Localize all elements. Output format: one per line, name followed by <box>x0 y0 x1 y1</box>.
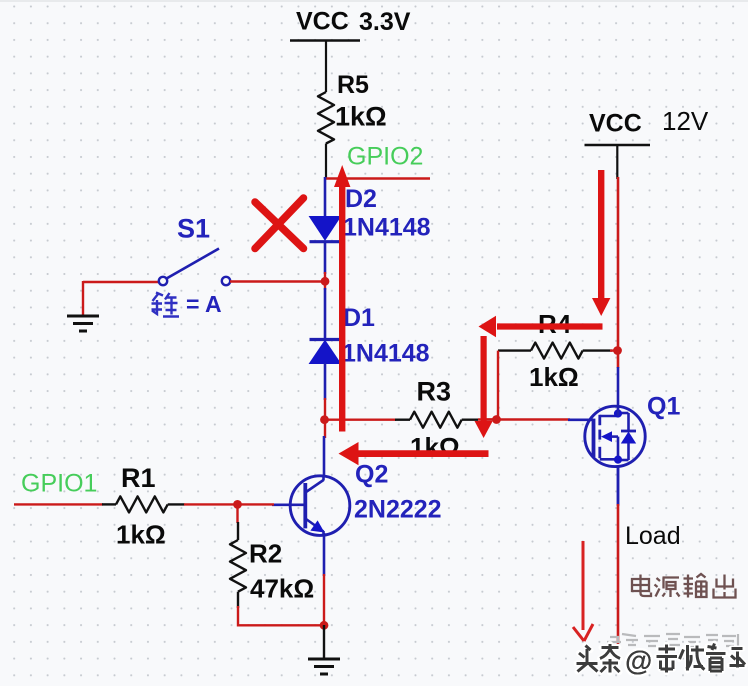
annotation thick red left-arrow (into Q2 collector) <box>339 442 489 465</box>
wire R1 to base (red) <box>184 503 274 505</box>
node junction emitter/R2/ground <box>320 621 329 630</box>
svg-text:1N4148: 1N4148 <box>342 340 430 368</box>
wire R4 left down to gate net (red) <box>486 351 498 420</box>
svg-text:1kΩ: 1kΩ <box>529 362 579 392</box>
svg-text:GPIO2: GPIO2 <box>347 143 423 171</box>
svg-text:2N2222: 2N2222 <box>354 496 442 524</box>
label 电源输出 (dark red-gray) <box>632 574 736 598</box>
svg-text:R2: R2 <box>249 539 282 569</box>
ground (S1 side) <box>67 281 99 331</box>
ground (bottom) <box>308 625 340 674</box>
node GPIO2 label <box>347 143 423 171</box>
resistor R4 1k <box>498 309 618 392</box>
label Load <box>625 522 681 550</box>
wire R2 bottom to emitter node (red) <box>238 606 324 625</box>
svg-text:1kΩ: 1kΩ <box>116 520 166 550</box>
resistor R5 1k <box>318 71 387 178</box>
svg-text:1kΩ: 1kΩ <box>335 102 387 132</box>
wire Q2 emitter down (blue pin then red) <box>323 533 326 626</box>
wire D2-to-node (red) <box>324 272 326 290</box>
svg-text:1kΩ: 1kΩ <box>410 432 460 462</box>
svg-text:D1: D1 <box>343 304 375 332</box>
svg-text:@: @ <box>625 645 652 676</box>
label 键 = A <box>152 291 222 317</box>
wire R3 to Q1 gate (red) <box>478 418 570 420</box>
wire collector node to R3 (red) <box>325 419 396 421</box>
svg-text:3.3V: 3.3V <box>359 8 411 36</box>
svg-text:12V: 12V <box>662 106 709 136</box>
wire GPIO2 net (red) <box>325 177 430 179</box>
power VCC 3.3V symbol <box>290 8 411 93</box>
switch S1 <box>83 214 325 286</box>
svg-text:R1: R1 <box>121 463 156 493</box>
svg-text:Q2: Q2 <box>355 461 388 489</box>
svg-text:GPIO1: GPIO1 <box>21 470 97 498</box>
transistor Q2 2N2222 <box>272 461 442 536</box>
wire VCC12 rail (red) <box>617 177 620 368</box>
wire Q2 collector pin (blue) <box>323 436 326 477</box>
annotation red X over D2 <box>255 198 304 249</box>
MOSFET Q1 <box>568 367 680 505</box>
diode D2 1N4148 <box>310 177 431 274</box>
svg-text:Load: Load <box>625 522 681 550</box>
annotation thick red down-arrow (to gate net) <box>475 336 493 438</box>
watermark 头条@硬件笔记本 <box>577 644 746 677</box>
annotation thick red up-arrow (current into GPIO2) <box>334 165 350 432</box>
resistor R1 1k <box>102 463 185 550</box>
svg-text:VCC: VCC <box>589 110 642 138</box>
diode D1 1N4148 <box>310 288 430 400</box>
svg-text:R5: R5 <box>337 71 369 99</box>
node junction R1/R2/base <box>233 500 242 509</box>
resistor R2 47k <box>230 504 314 608</box>
watermark ghost text <box>607 634 738 648</box>
svg-text:S1: S1 <box>177 214 210 244</box>
annotation thick red left-arrow (over R4) <box>479 316 603 337</box>
svg-text:= A: = A <box>186 291 222 317</box>
svg-text:VCC: VCC <box>296 8 349 36</box>
svg-text:Q1: Q1 <box>647 393 680 421</box>
node junction R3/R4/gate <box>492 415 501 424</box>
svg-text:1N4148: 1N4148 <box>343 214 431 242</box>
node junction S1/diodes <box>321 277 330 286</box>
wire GPIO1 to R1 (red) <box>14 503 103 505</box>
annotation thick red down-arrow (from 12V) <box>592 170 610 316</box>
node junction VCC12/R4/drain <box>613 346 622 355</box>
wire Q1 source to Load (blue pin then red) <box>617 466 620 644</box>
power VCC 12V symbol <box>585 106 709 179</box>
svg-text:R3: R3 <box>417 377 452 407</box>
svg-text:D2: D2 <box>345 185 377 213</box>
annotation thin red arrow (output current) <box>573 541 593 641</box>
svg-text:47kΩ: 47kΩ <box>250 574 314 604</box>
node junction D1/R3/collector <box>320 415 329 424</box>
resistor R3 1k <box>395 377 478 463</box>
wire D1-to-collector node (red) <box>324 398 326 438</box>
label GPIO1 <box>21 470 97 498</box>
